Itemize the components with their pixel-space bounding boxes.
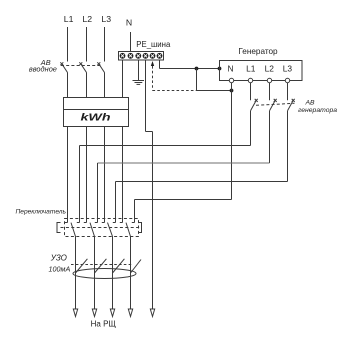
RCD blade pole 4 — [131, 260, 142, 274]
RCD blade pole 1 — [76, 259, 88, 273]
switch blade pole 4 — [126, 223, 131, 237]
switch blade pole 2 — [90, 223, 95, 237]
svg-text:N: N — [126, 18, 132, 28]
svg-text:генератора: генератора — [298, 107, 337, 114]
svg-text:PE_шина: PE_шина — [136, 40, 171, 49]
generator terminal N — [229, 78, 233, 82]
svg-text:Переключатель: Переключатель — [16, 209, 67, 216]
generator terminal L3 — [285, 78, 289, 82]
ground electrode symbol — [133, 81, 145, 85]
svg-text:L3: L3 — [283, 64, 293, 74]
wire kWh L1 out to switch — [65, 127, 68, 223]
junction node generator frame — [218, 67, 222, 71]
breaker AB-main pole 2 — [79, 62, 86, 72]
switch actuator bracket left — [57, 223, 61, 233]
wire L1 breaker to kWh — [67, 73, 69, 98]
changeover switch mechanical link (dashed) — [61, 227, 142, 229]
arrow out L1 — [73, 309, 77, 317]
wire PE bus terminal1 to kWh — [122, 60, 124, 98]
label AB generatora — [298, 100, 337, 114]
kWh meter box — [64, 98, 129, 127]
wire gen L2 feed to switch — [95, 111, 270, 223]
RCD blade pole 2 — [95, 259, 107, 273]
wire gen L1 to breaker — [250, 83, 252, 101]
wire gen L2 to breaker — [269, 83, 271, 101]
arrow out N — [128, 309, 132, 317]
wire gen L3 to breaker — [287, 83, 289, 101]
PE bus screw terminal 6 — [157, 53, 163, 59]
breaker AB-gen pole 2 — [270, 99, 277, 111]
svg-text:100мА: 100мА — [49, 264, 71, 273]
svg-text:kWh: kWh — [81, 113, 111, 124]
PE bus screw terminal 5 — [150, 53, 156, 59]
switch blade pole 1 — [71, 223, 76, 237]
wire PE bus terminal6 to generator frame — [160, 60, 220, 69]
wire L2 drop to breaker — [86, 27, 88, 62]
wire L3 drop to breaker — [104, 27, 106, 62]
wire gen N to junction — [231, 83, 233, 91]
wire switch out N — [130, 237, 132, 310]
RCD blade pole 3 — [113, 259, 125, 273]
arrow PE out — [150, 309, 154, 317]
svg-text:УЗО: УЗО — [50, 253, 67, 262]
wire N drop to PE bus — [130, 32, 132, 52]
svg-text:Генератор: Генератор — [238, 47, 278, 56]
mechanical link AB-main (dashed) — [61, 65, 102, 67]
breaker AB-gen pole 3 — [288, 99, 295, 111]
wire PE tap to generator N — [197, 90, 232, 92]
wire PE tap down — [196, 69, 198, 91]
wire gen L1 feed to switch — [77, 111, 251, 223]
svg-text:L3: L3 — [101, 14, 111, 24]
breaker AB-gen pole 1 — [251, 99, 258, 111]
wire switch out L3 — [112, 237, 114, 310]
RCD mechanical link (dashed) — [71, 264, 132, 266]
svg-text:L2: L2 — [265, 64, 275, 74]
svg-text:L2: L2 — [82, 14, 92, 24]
breaker AB-main pole 3 — [97, 62, 104, 72]
switch blade pole 3 — [108, 223, 113, 237]
svg-text:вводное: вводное — [29, 64, 57, 73]
generator terminal L2 — [267, 78, 271, 82]
changeover switch enclosure (dashed) — [65, 219, 139, 237]
wire gen L3 feed to switch — [113, 111, 288, 223]
mechanical link AB-gen (dashed) — [256, 103, 295, 105]
svg-text:АВ: АВ — [304, 100, 315, 107]
generator box — [220, 61, 303, 81]
wire L1 drop to breaker — [67, 27, 69, 62]
svg-text:L1: L1 — [246, 64, 256, 74]
wire kWh L2 out to switch — [84, 127, 87, 223]
wire PE bus terminal3 to earth — [138, 60, 140, 81]
wire kWh N out to switch — [120, 127, 123, 223]
PE bus screw terminal 3 — [135, 53, 141, 59]
arrow out L3 — [110, 309, 114, 317]
label AB vvodnoe — [29, 58, 57, 74]
wire switch out L2 — [94, 237, 96, 310]
wire gen N down to switch — [132, 91, 232, 223]
RCD toroid core — [73, 269, 136, 279]
PE bus terminal strip — [119, 52, 164, 61]
arrow out L2 — [92, 309, 96, 317]
PE bus screw terminal 4 — [143, 53, 149, 59]
wire L3 breaker to kWh — [104, 73, 106, 98]
dashed PE-N bonding link with arrow — [151, 61, 197, 91]
breaker AB-main pole 1 — [60, 62, 67, 72]
junction node generator N — [230, 89, 234, 93]
wire PE bus terminal4 down (PE to RShch) — [146, 60, 153, 309]
wire kWh L3 out to switch — [102, 127, 105, 223]
wire L2 breaker to kWh — [86, 73, 88, 98]
svg-text:N: N — [227, 64, 233, 74]
switch actuator bracket right — [139, 223, 142, 233]
PE bus screw terminal 2 — [128, 53, 134, 59]
svg-text:L1: L1 — [64, 14, 74, 24]
wire switch out L1 — [75, 237, 77, 310]
generator terminal L1 — [248, 78, 252, 82]
svg-text:На РЩ: На РЩ — [91, 319, 117, 328]
junction node PE/N tap — [195, 67, 199, 71]
PE bus screw terminal 1 — [120, 53, 126, 59]
